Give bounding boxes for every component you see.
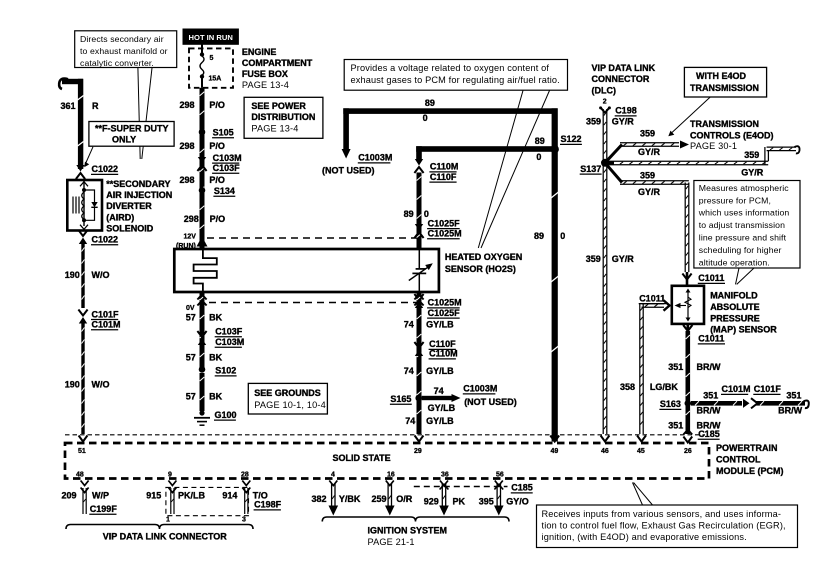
label 74 GY/LB (1) <box>404 320 454 330</box>
svg-text:which uses information: which uses information <box>698 208 790 218</box>
svg-text:351: 351 <box>703 391 718 401</box>
connector C101F/C101M on wire 190 <box>78 310 87 324</box>
svg-text:C1003M: C1003M <box>463 384 497 394</box>
svg-text:BR/W: BR/W <box>697 362 721 372</box>
dead-end arrow to C1003M <box>452 394 461 402</box>
svg-text:PRESSURE: PRESSURE <box>710 313 760 323</box>
svg-text:0: 0 <box>424 209 429 219</box>
svg-text:S163: S163 <box>660 399 681 409</box>
svg-text:ignition, (with E4OD) and evap: ignition, (with E4OD) and evaporative em… <box>542 532 747 542</box>
svg-text:LG/BK: LG/BK <box>650 382 678 392</box>
svg-text:0: 0 <box>560 231 565 241</box>
svg-text:351: 351 <box>668 362 683 372</box>
svg-text:89: 89 <box>534 231 544 241</box>
label VIP DATA LINK CONNECTOR (DLC) <box>592 63 656 96</box>
svg-text:S165: S165 <box>390 394 411 404</box>
hook at right end 351 <box>804 401 809 409</box>
label S163 <box>659 399 681 409</box>
svg-text:GY/R: GY/R <box>638 147 661 157</box>
svg-text:Receives inputs from various s: Receives inputs from various sensors, an… <box>542 509 782 519</box>
svg-text:SENSOR (HO2S): SENSOR (HO2S) <box>445 264 516 274</box>
PCM socket pin 46 <box>601 436 610 442</box>
splice S105 <box>199 129 206 136</box>
svg-text:51: 51 <box>78 448 86 455</box>
connector C103F/C103M on wire 57 <box>197 331 206 345</box>
svg-text:57: 57 <box>186 353 196 363</box>
svg-text:VIP DATA LINK: VIP DATA LINK <box>592 63 656 73</box>
voltage tag 12V (RUN) <box>176 234 196 251</box>
engine compartment fuse box (dashed) <box>189 48 233 87</box>
svg-text:12V: 12V <box>184 234 197 241</box>
svg-text:S102: S102 <box>215 366 236 376</box>
label C1025F below box <box>427 308 460 318</box>
label 298 P/O (1) <box>180 100 225 110</box>
DLC pigtail wire at x=172.4 <box>168 481 176 515</box>
label 57 BK (2) <box>186 353 223 363</box>
label S122 <box>560 134 582 144</box>
svg-text:exhaust gases to PCM for regul: exhaust gases to PCM for regulating air/… <box>351 75 560 85</box>
label 57 BK (1) <box>186 313 223 323</box>
svg-text:PAGE 13-4: PAGE 13-4 <box>242 80 289 90</box>
svg-text:359: 359 <box>744 150 759 160</box>
svg-text:Provides a voltage related to: Provides a voltage related to oxygen con… <box>351 63 550 73</box>
connector C103M/C103F on wire 298 <box>197 157 206 171</box>
wire drop to C1003M (not used) <box>343 108 349 149</box>
svg-text:C103M: C103M <box>215 337 244 347</box>
labels on 351 branch <box>697 391 803 416</box>
svg-text:S134: S134 <box>214 186 235 196</box>
wire 351 continues right <box>756 401 805 406</box>
PCM socket pin 26 <box>683 437 692 443</box>
label C101M <box>91 320 121 330</box>
svg-text:SOLID STATE: SOLID STATE <box>333 453 391 463</box>
svg-text:382: 382 <box>312 494 327 504</box>
label 209 W/P <box>62 491 110 501</box>
label C1003M top <box>358 153 393 163</box>
label C1022 upper <box>91 164 118 174</box>
label 382 Y/BK <box>312 494 361 504</box>
label IGNITION SYSTEM <box>368 526 448 548</box>
svg-text:74: 74 <box>405 416 415 426</box>
PCM socket pin 45 <box>637 436 646 442</box>
svg-text:C101F: C101F <box>92 309 120 319</box>
svg-text:C199F: C199F <box>90 504 118 514</box>
svg-text:359: 359 <box>586 117 601 127</box>
wire S122 riser to PCM pin 49 <box>551 108 559 441</box>
pointer arrow from F-SUPER box to C1022 <box>84 147 93 167</box>
label C101F right <box>753 384 781 394</box>
wire HO2S signal down to sensor <box>417 173 422 249</box>
label C1003M branch <box>463 384 498 394</box>
svg-text:MODULE (PCM): MODULE (PCM) <box>716 466 784 476</box>
label 929 PK <box>424 496 466 506</box>
svg-text:BK: BK <box>209 392 222 402</box>
label 351 BR/W (2) <box>668 421 721 431</box>
svg-text:GY/LB: GY/LB <box>426 320 454 330</box>
fuse 15A <box>200 44 204 88</box>
note box: F-SUPER DUTY ONLY <box>89 122 174 147</box>
label C1011 left <box>639 293 666 303</box>
svg-text:2: 2 <box>603 98 607 105</box>
svg-text:56: 56 <box>496 472 504 479</box>
label C1011 bottom <box>698 334 725 344</box>
svg-text:190: 190 <box>65 270 80 280</box>
label 359 GY/R (top) <box>586 117 634 127</box>
chevron below HO2S left <box>197 295 206 306</box>
svg-text:TRANSMISSION: TRANSMISSION <box>690 119 759 129</box>
svg-text:4: 4 <box>331 472 335 479</box>
callout note: receives inputs (PCM) <box>537 505 798 548</box>
wire second run to C110M <box>416 146 556 152</box>
label 57 BK (3) <box>186 392 223 402</box>
svg-text:pressure for PCM,: pressure for PCM, <box>699 195 771 205</box>
powertrain control module PCM dashed box <box>65 443 709 479</box>
svg-text:TRANSMISSION: TRANSMISSION <box>690 83 759 93</box>
svg-text:COMPARTMENT: COMPARTMENT <box>242 58 313 68</box>
svg-text:SEE POWER: SEE POWER <box>251 101 306 111</box>
svg-text:GY/LB: GY/LB <box>426 366 454 376</box>
svg-text:259: 259 <box>372 494 387 504</box>
svg-text:914: 914 <box>222 491 237 501</box>
ignition wire 929 PK <box>439 481 449 516</box>
svg-text:89: 89 <box>425 98 435 108</box>
svg-text:36: 36 <box>441 472 449 479</box>
svg-text:57: 57 <box>186 313 196 323</box>
svg-text:298: 298 <box>180 175 195 185</box>
label 359 GY/R (lower) <box>586 254 635 264</box>
DLC pigtail wire at x=246.3 <box>242 481 250 515</box>
label 298 P/O (2) <box>180 141 225 151</box>
svg-text:C110F: C110F <box>429 339 456 349</box>
svg-text:W/O: W/O <box>92 379 110 389</box>
callout note: measures atmospheric pressure <box>694 181 800 269</box>
svg-text:P/O: P/O <box>210 214 226 224</box>
note box: WITH E4OD TRANSMISSION <box>684 67 766 97</box>
label HEATED OXYGEN SENSOR (HO2S) <box>445 252 522 274</box>
connector C185 chevron on 351 <box>683 430 692 435</box>
wire 359 GY/R DLC to PCM pin 46 <box>603 109 607 434</box>
svg-text:SEE GROUNDS: SEE GROUNDS <box>254 388 321 398</box>
splice S137 <box>601 159 609 167</box>
svg-text:(NOT USED): (NOT USED) <box>322 166 375 176</box>
svg-text:BK: BK <box>209 353 222 363</box>
fuse value labels 5 / 15A <box>209 55 222 82</box>
svg-text:298: 298 <box>180 100 195 110</box>
splice S102 <box>199 366 206 373</box>
label C101M right <box>721 384 751 394</box>
svg-text:361: 361 <box>61 101 76 111</box>
label C101F <box>91 309 119 319</box>
svg-text:GY/R: GY/R <box>612 117 635 127</box>
label C1025M above box <box>427 229 462 239</box>
svg-text:C1011: C1011 <box>698 334 724 344</box>
svg-text:BR/W: BR/W <box>778 406 802 416</box>
svg-text:ENGINE: ENGINE <box>242 47 277 57</box>
svg-text:C103F: C103F <box>215 327 243 337</box>
svg-text:GY/LB: GY/LB <box>426 416 454 426</box>
svg-text:0V: 0V <box>186 305 195 312</box>
callout note: provides a voltage (HO2S) <box>344 60 567 91</box>
label 915 PK/LB <box>146 491 205 501</box>
wire 351 BR/W MAP to PCM pin 26 <box>686 331 691 434</box>
svg-text:CONTROL: CONTROL <box>716 455 761 465</box>
ignition wire 382 Y/BK <box>329 481 339 516</box>
svg-text:C1011: C1011 <box>639 293 665 303</box>
svg-text:AIR INJECTION: AIR INJECTION <box>106 190 172 200</box>
connector C1025F/C1025M above box <box>414 224 423 238</box>
connector C185 boundary dashed line above PCM <box>65 434 705 436</box>
svg-text:(DLC): (DLC) <box>592 86 617 96</box>
connector C1011 bottom chevron <box>683 325 692 331</box>
svg-text:PK: PK <box>453 496 466 506</box>
svg-text:O/R: O/R <box>396 494 413 504</box>
svg-text:359: 359 <box>640 171 655 181</box>
svg-text:C185: C185 <box>511 483 533 493</box>
svg-text:C1022: C1022 <box>92 164 119 174</box>
0V tag and boundary dash <box>186 305 195 312</box>
wire 358 LG/BK MAP to PCM pin 45 <box>642 304 665 307</box>
svg-text:190: 190 <box>65 379 80 389</box>
svg-text:298: 298 <box>180 141 195 151</box>
connector C110M/C110F top <box>414 159 423 173</box>
svg-text:POWERTRAIN: POWERTRAIN <box>716 443 778 453</box>
connector boundary dash at 12V line <box>207 237 419 239</box>
label C103F <box>212 163 240 173</box>
brace VIP data link connector <box>66 525 253 530</box>
svg-text:PK/LB: PK/LB <box>178 491 206 501</box>
connector C1011 left chevron <box>664 300 670 310</box>
svg-text:PAGE 21-1: PAGE 21-1 <box>368 537 415 547</box>
label 74 GY/LB (3) <box>405 416 454 426</box>
svg-text:C101F: C101F <box>754 384 782 394</box>
DLC pigtail wire at x=84.6 <box>81 481 89 515</box>
svg-text:57: 57 <box>186 392 196 402</box>
power feed tag HOT IN RUN <box>183 29 239 45</box>
wire 74 GY/LB sensor signal to PCM pin 29 <box>417 292 422 434</box>
svg-text:46: 46 <box>601 448 609 455</box>
connector C1025M/C1025F below box <box>414 294 423 308</box>
svg-text:IGNITION SYSTEM: IGNITION SYSTEM <box>368 526 448 536</box>
svg-text:C1025M: C1025M <box>428 229 462 239</box>
wire 57 BK heater ground <box>200 292 205 368</box>
MAP sensor internals <box>675 289 692 322</box>
branch wire 351 to right <box>691 401 742 406</box>
label MANIFOLD ABSOLUTE PRESSURE (MAP) SENSOR <box>710 291 777 335</box>
label C199F <box>89 504 117 514</box>
connector C101M/C101F inline (right) <box>743 398 758 408</box>
callout note: directs secondary air <box>75 31 177 68</box>
PCM socket pin 49 <box>550 436 559 442</box>
AIRD solenoid box <box>67 180 102 231</box>
wire HO2S signal top run (to S122 riser) <box>343 108 557 114</box>
callout pointer to PCM <box>633 483 653 506</box>
label S137 <box>580 164 602 174</box>
svg-text:**SECONDARY: **SECONDARY <box>106 179 170 189</box>
svg-text:C1003M: C1003M <box>358 153 392 163</box>
svg-text:3: 3 <box>242 517 246 524</box>
svg-text:DISTRIBUTION: DISTRIBUTION <box>251 112 315 122</box>
svg-text:C1025F: C1025F <box>428 308 461 318</box>
label G100 <box>214 410 237 420</box>
svg-text:351: 351 <box>668 421 683 431</box>
wire 359 branch across to right (E4OD) <box>605 161 614 164</box>
svg-text:scheduling for higher: scheduling for higher <box>699 245 782 255</box>
svg-text:351: 351 <box>786 391 801 401</box>
svg-text:GY/R: GY/R <box>612 254 635 264</box>
svg-text:89: 89 <box>535 136 545 146</box>
12V test point arrow <box>197 237 208 247</box>
svg-text:to adjust transmission: to adjust transmission <box>699 220 785 230</box>
svg-text:16: 16 <box>387 472 395 479</box>
svg-text:5: 5 <box>210 55 214 62</box>
label C103M <box>212 153 242 163</box>
brace ignition system <box>322 517 509 522</box>
svg-text:Directs secondary air: Directs secondary air <box>80 34 164 44</box>
svg-text:BK: BK <box>209 313 222 323</box>
svg-text:C103F: C103F <box>213 163 241 173</box>
svg-text:catalytic converter.: catalytic converter. <box>80 58 154 68</box>
connector C1003M dead-end arrow <box>342 149 351 159</box>
callout pointer lines to C1022 <box>138 68 152 159</box>
svg-text:R: R <box>92 101 99 111</box>
label 298 P/O (4) <box>184 214 225 224</box>
label C110F top <box>429 172 457 182</box>
note box: see power distribution <box>244 97 323 138</box>
svg-text:C110M: C110M <box>430 162 459 172</box>
callout pointer lines to HO2S <box>478 91 549 249</box>
svg-text:Y/BK: Y/BK <box>339 494 361 504</box>
chevron pair below HO2S right <box>414 295 423 306</box>
svg-text:1: 1 <box>166 517 170 524</box>
svg-text:**F-SUPER DUTY: **F-SUPER DUTY <box>95 124 169 134</box>
ground G100 <box>194 410 210 425</box>
label 74 GY/LB (2) <box>404 366 454 376</box>
ignition wire 259 O/R <box>385 481 395 516</box>
connector C1022 upper <box>76 165 85 179</box>
svg-text:S122: S122 <box>561 134 582 144</box>
svg-text:W/P: W/P <box>92 491 109 501</box>
svg-text:MANIFOLD: MANIFOLD <box>710 291 758 301</box>
svg-text:FUSE BOX: FUSE BOX <box>242 69 288 79</box>
splice S163 <box>685 400 692 407</box>
svg-text:GY/R: GY/R <box>638 187 661 197</box>
label 395 GY/O <box>479 496 529 506</box>
svg-text:45: 45 <box>637 448 645 455</box>
label C1025F above box <box>427 218 460 228</box>
splice S122 <box>551 145 559 153</box>
label C103F lower <box>215 327 243 337</box>
svg-text:G100: G100 <box>215 410 237 420</box>
label 190 W/O lower <box>65 379 110 389</box>
arrow to transmission controls <box>680 141 689 149</box>
svg-text:358: 358 <box>620 382 635 392</box>
label C198 <box>615 106 637 116</box>
svg-text:89: 89 <box>404 209 414 219</box>
fuse box name label <box>242 47 313 90</box>
MAP sensor box <box>672 286 704 324</box>
svg-text:(AIRD): (AIRD) <box>106 213 134 223</box>
svg-text:PAGE 30-1: PAGE 30-1 <box>690 141 737 151</box>
svg-text:49: 49 <box>551 448 559 455</box>
svg-text:0: 0 <box>423 113 428 123</box>
svg-text:915: 915 <box>146 491 161 501</box>
svg-text:Measures atmospheric: Measures atmospheric <box>699 183 789 193</box>
connector C1022 lower <box>78 230 87 244</box>
label C1025M below box <box>427 298 462 308</box>
wire 190 W/O lower segment <box>81 324 84 435</box>
svg-text:S105: S105 <box>213 128 234 138</box>
svg-text:C1022: C1022 <box>92 235 119 245</box>
svg-text:C1025M: C1025M <box>428 298 462 308</box>
PCM socket pin 29 <box>415 436 424 442</box>
label S105 <box>212 128 234 138</box>
svg-text:VIP DATA LINK CONNECTOR: VIP DATA LINK CONNECTOR <box>103 532 228 542</box>
svg-text:929: 929 <box>424 496 439 506</box>
svg-text:C110M: C110M <box>429 349 458 359</box>
callout pointer to C1011 <box>736 268 755 284</box>
svg-text:C198: C198 <box>615 106 637 116</box>
label 190 W/O upper <box>65 270 110 280</box>
AIRD solenoid name label <box>106 179 172 234</box>
svg-text:BR/W: BR/W <box>697 406 721 416</box>
label 351 BR/W (1) <box>668 362 721 372</box>
hook at right end branch B <box>795 146 800 153</box>
PCM pin numbers bottom row <box>76 472 504 479</box>
svg-text:29: 29 <box>414 448 422 455</box>
wire 359 branch to transmission controls <box>605 145 622 163</box>
wire 57 BK lower <box>200 373 205 411</box>
svg-text:CONTROLS (E4OD): CONTROLS (E4OD) <box>690 131 774 141</box>
svg-text:CONNECTOR: CONNECTOR <box>592 74 650 84</box>
connector C198 chevron <box>599 106 611 112</box>
svg-text:tion to control fuel flow, Exh: tion to control fuel flow, Exhaust Gas R… <box>542 520 786 530</box>
label C185 upper <box>698 429 720 439</box>
PCM pin numbers top row <box>78 448 692 455</box>
branch wire 74 to C1003M not used <box>422 396 453 400</box>
svg-text:C103M: C103M <box>213 153 242 163</box>
svg-text:359: 359 <box>586 254 601 264</box>
wire 361 R from battery feed <box>59 79 83 169</box>
svg-text:W/O: W/O <box>92 270 110 280</box>
svg-text:74: 74 <box>434 386 444 396</box>
connector C110F/C110M lower <box>414 342 423 356</box>
DLC dashed connector outline <box>166 487 249 515</box>
AIRD solenoid internals: coil, diode, core <box>73 180 98 229</box>
svg-text:74: 74 <box>404 366 414 376</box>
wire 190 W/O from AIRD to PCM pin 51 <box>81 244 84 309</box>
svg-text:74: 74 <box>404 320 414 330</box>
label C1011 top <box>698 273 725 283</box>
svg-text:C110F: C110F <box>430 172 457 182</box>
svg-text:to exhaust manifold or: to exhaust manifold or <box>80 46 168 56</box>
svg-text:PAGE 10-1, 10-4: PAGE 10-1, 10-4 <box>254 400 326 410</box>
label C110F lower <box>429 339 457 349</box>
svg-text:PAGE 13-4: PAGE 13-4 <box>251 123 298 133</box>
wire label 361 R <box>61 101 100 111</box>
svg-text:S137: S137 <box>580 164 601 174</box>
label S134 <box>213 186 235 196</box>
svg-text:ONLY: ONLY <box>112 135 136 145</box>
note box: see grounds <box>248 383 327 414</box>
svg-text:P/O: P/O <box>209 100 225 110</box>
svg-text:GY/R: GY/R <box>741 168 764 178</box>
svg-text:line pressure and shift: line pressure and shift <box>699 233 787 243</box>
PCM socket pin 51 <box>79 436 88 442</box>
svg-text:15A: 15A <box>209 76 222 83</box>
splice S165 <box>415 395 422 402</box>
C185 chevrons on ignition wires <box>440 485 504 490</box>
label S165 <box>390 394 412 404</box>
